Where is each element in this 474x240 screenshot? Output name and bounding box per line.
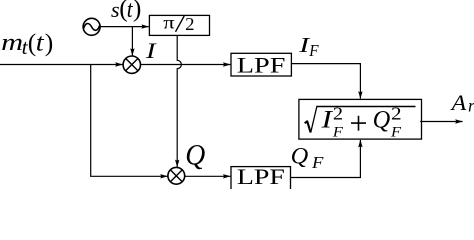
svg-text:Q: Q xyxy=(185,138,205,172)
svg-text:F: F xyxy=(311,153,324,172)
svg-text:m: m xyxy=(1,29,23,56)
svg-text:π: π xyxy=(163,13,175,33)
svg-text:r: r xyxy=(468,96,474,116)
svg-text:): ) xyxy=(133,0,142,23)
svg-text:Q: Q xyxy=(291,144,309,169)
svg-text:2: 2 xyxy=(391,104,402,124)
svg-text:LPF: LPF xyxy=(237,52,286,77)
svg-text:A: A xyxy=(450,90,467,115)
svg-text:t: t xyxy=(36,27,45,56)
svg-text:F: F xyxy=(390,125,402,141)
svg-text:F: F xyxy=(308,41,319,60)
svg-text:LPF: LPF xyxy=(237,164,285,189)
svg-text:2: 2 xyxy=(333,104,343,124)
svg-text:2: 2 xyxy=(185,14,194,34)
svg-text:Q: Q xyxy=(373,107,391,134)
svg-text:): ) xyxy=(45,28,54,57)
svg-text:I: I xyxy=(320,107,334,134)
svg-text:F: F xyxy=(332,125,344,141)
svg-text:I: I xyxy=(145,38,158,63)
